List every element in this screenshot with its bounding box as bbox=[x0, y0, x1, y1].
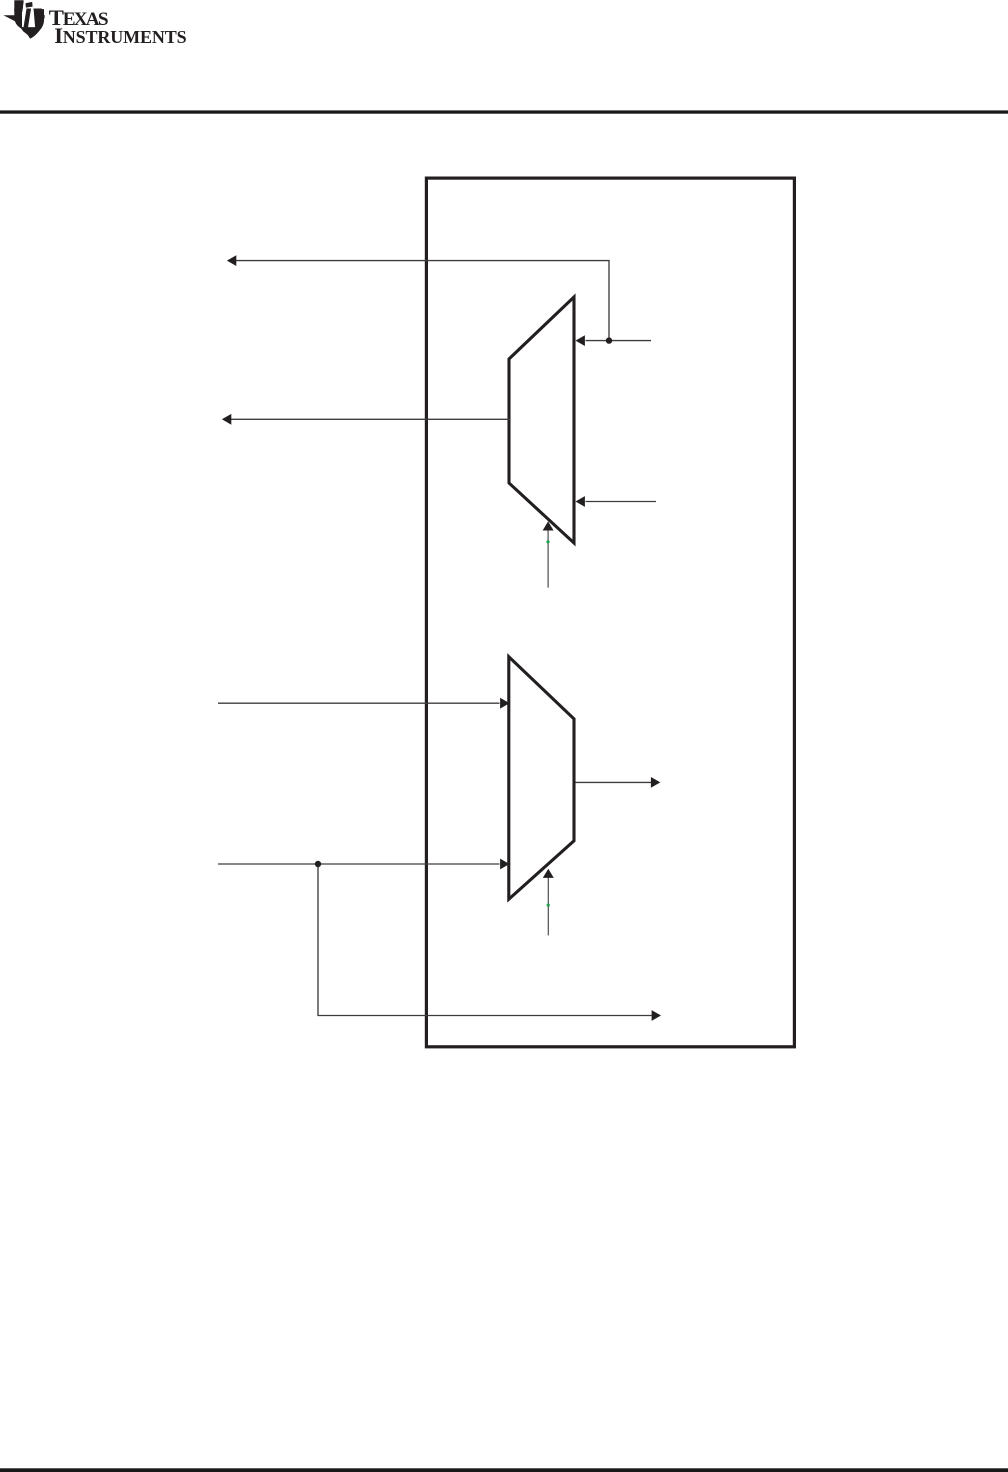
svg-text:NSTRUMENTS: NSTRUMENTS bbox=[63, 27, 187, 47]
